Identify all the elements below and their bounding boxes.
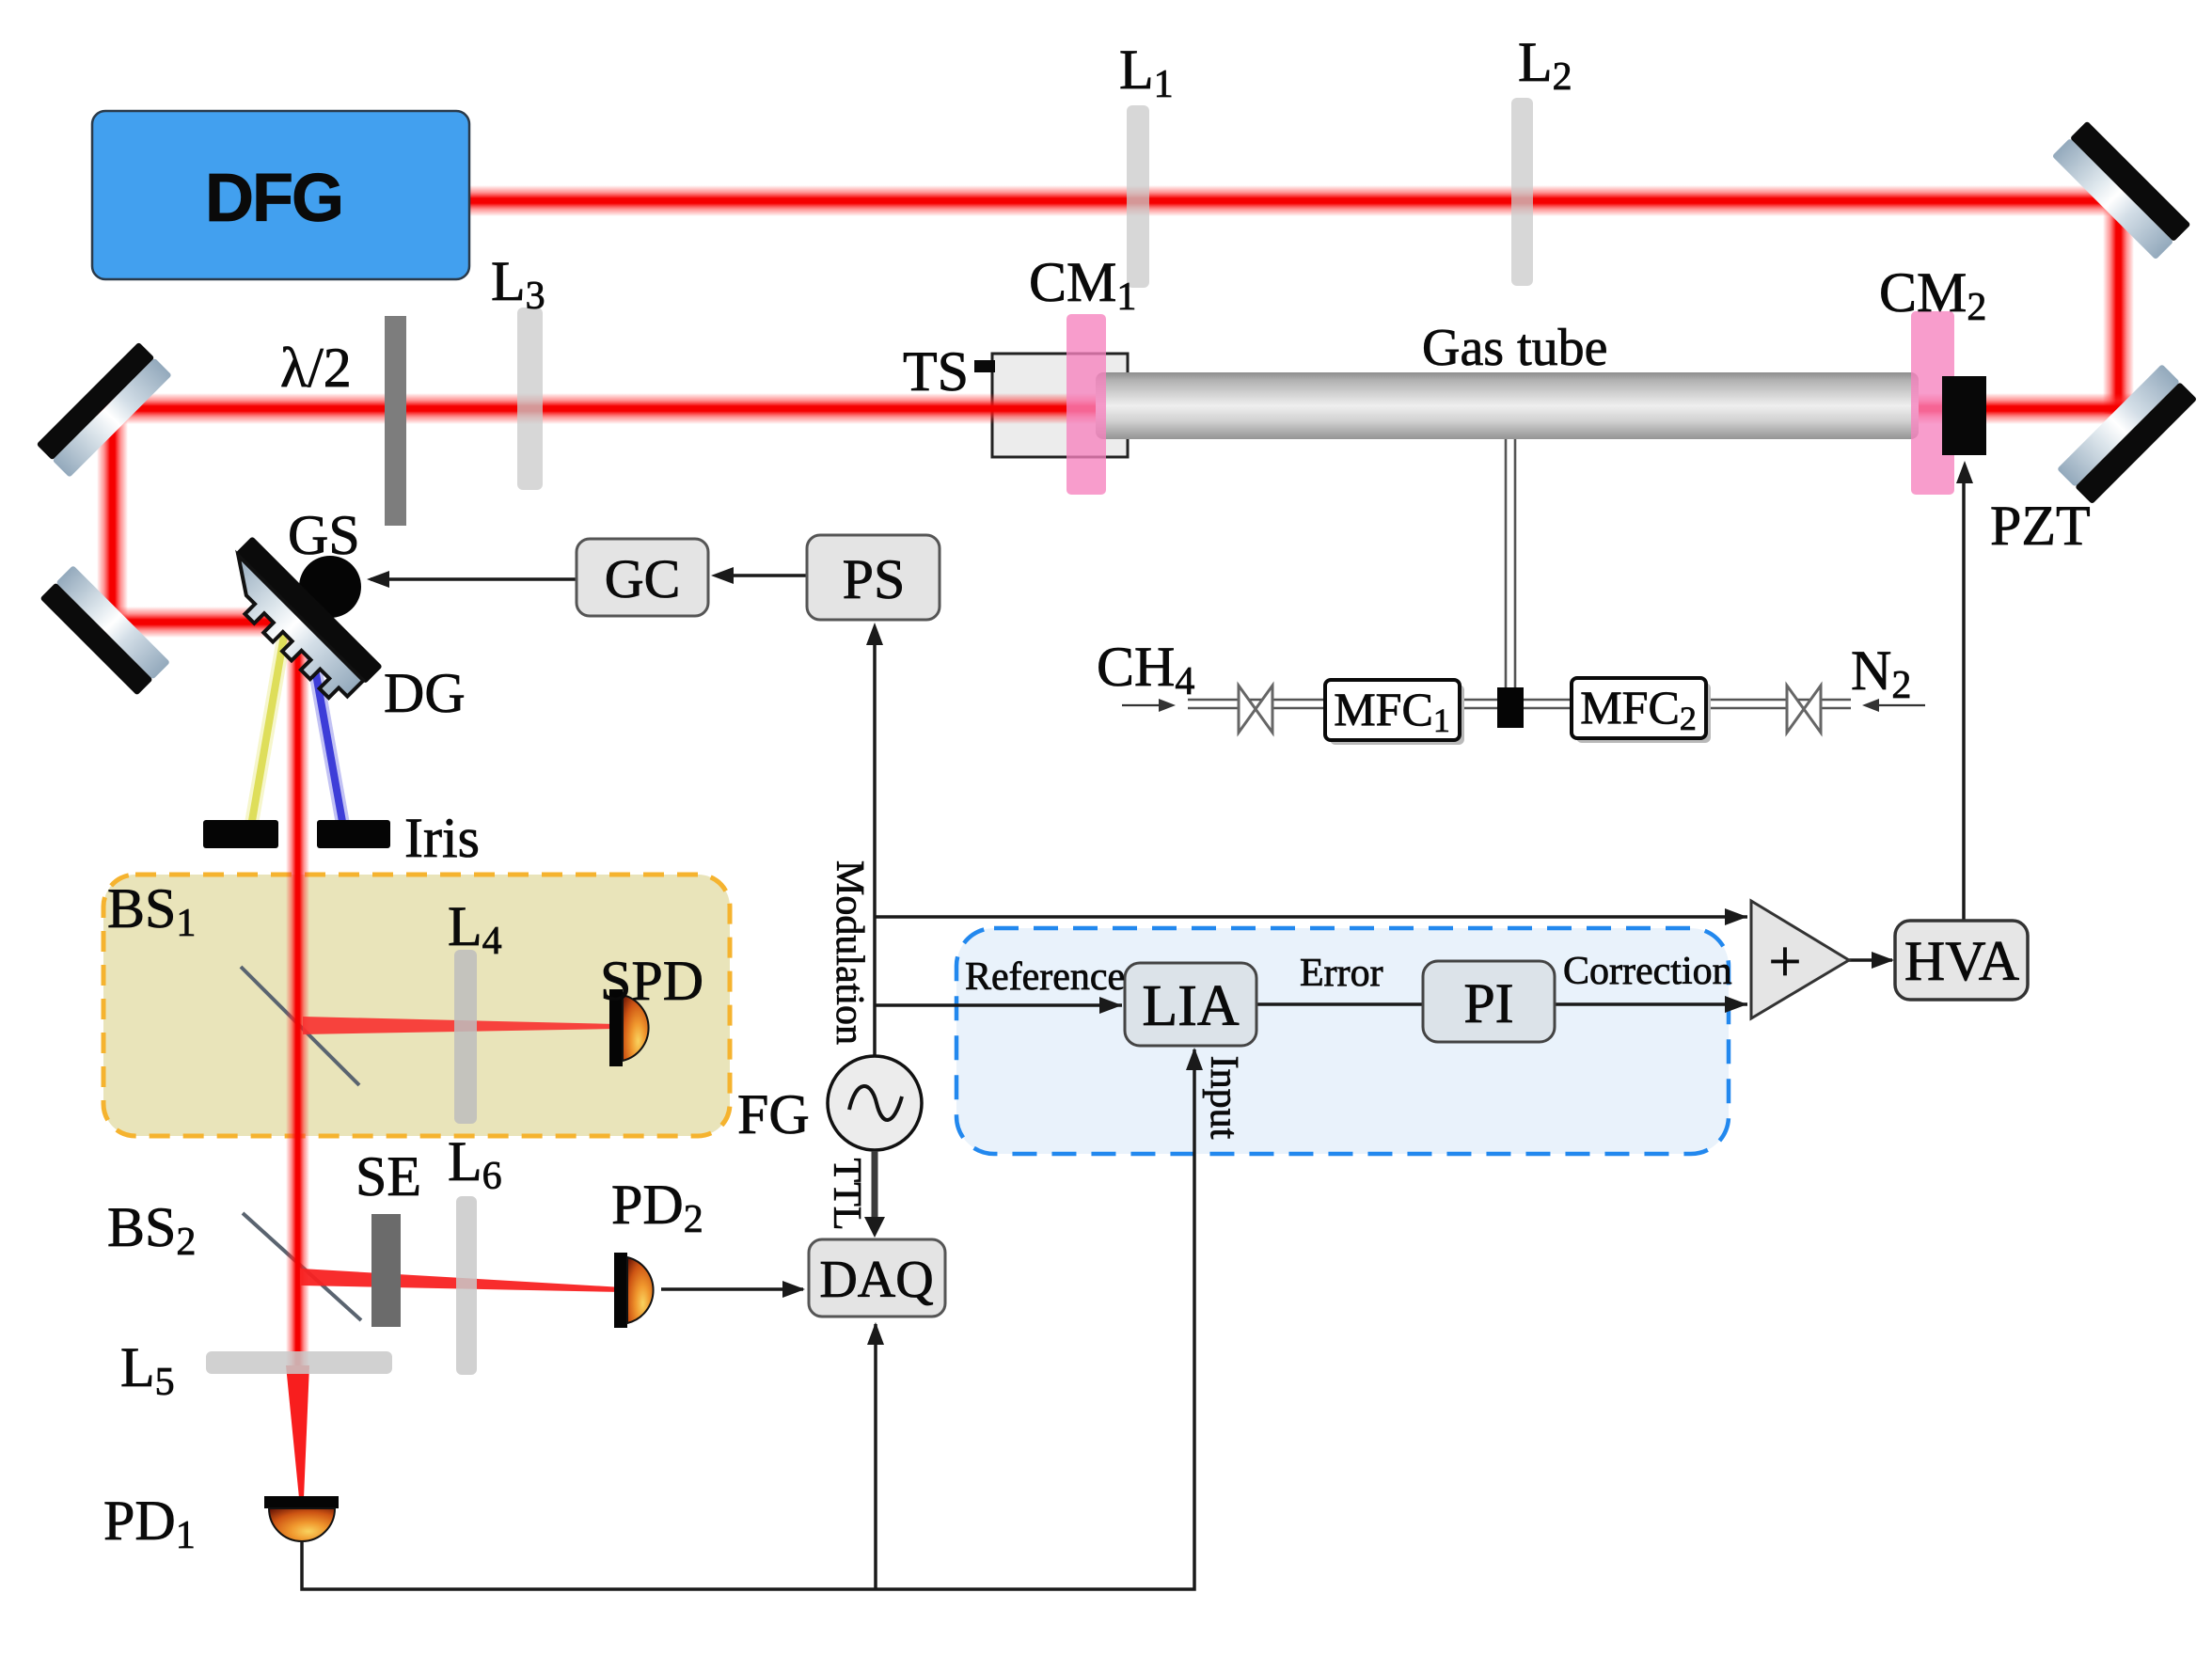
beam BS2 to PD2 <box>301 1269 623 1292</box>
arrowhead into DAQ bottom <box>867 1322 884 1345</box>
arrowhead into PZT <box>1956 461 1973 483</box>
lens L1 <box>1127 105 1149 288</box>
cavity mirror CM1 <box>1066 314 1106 495</box>
arrowhead into PS <box>866 623 883 645</box>
svg-text:Reference: Reference <box>965 955 1125 999</box>
svg-text:Error: Error <box>1300 952 1383 995</box>
svg-text:Gas tube: Gas tube <box>1422 319 1608 377</box>
PZT actuator <box>1942 376 1986 455</box>
pipe from gas tube down to junction <box>1505 439 1508 700</box>
svg-text:λ/2: λ/2 <box>280 337 352 399</box>
iris left blade <box>203 820 278 848</box>
svg-text:Correction: Correction <box>1563 950 1732 993</box>
svg-text:GS: GS <box>288 504 360 566</box>
beam lower-left mirror to grating <box>105 607 305 638</box>
svg-text:Modulation: Modulation <box>828 860 871 1045</box>
arrowhead into HVA <box>1872 952 1894 969</box>
svg-text:DAQ: DAQ <box>819 1251 933 1309</box>
arrowhead correction into summing amp <box>1725 996 1747 1013</box>
mirror M3 upper left <box>37 342 172 478</box>
svg-text:SPD: SPD <box>600 950 703 1012</box>
svg-text:PI: PI <box>1463 972 1513 1034</box>
TTL arrow FG to DAQ <box>872 1151 878 1224</box>
box HVA <box>1895 921 2028 1000</box>
wire bottom branch to DAQ <box>874 1324 877 1589</box>
wire vertical PS-FG <box>873 628 877 1057</box>
svg-text:HVA: HVA <box>1904 930 2019 992</box>
arrowhead modulation into summing amp <box>1725 908 1747 925</box>
mirror M2 lower right <box>2057 364 2197 504</box>
svg-text:PZT: PZT <box>1990 495 2091 557</box>
galvo scanner GS <box>299 556 361 618</box>
svg-text:MFC1: MFC1 <box>1334 683 1450 739</box>
beamsplitter BS2 <box>243 1213 361 1320</box>
arrowhead PD2 into DAQ <box>782 1281 805 1298</box>
beam lower-right mirror to gas tube <box>1919 393 2137 424</box>
label DFG box <box>92 111 469 279</box>
svg-text:FG: FG <box>737 1083 810 1145</box>
summing amplifier <box>1751 901 1849 1018</box>
svg-text:PS: PS <box>843 548 906 610</box>
beam BS1 to SPD <box>303 1017 616 1034</box>
svg-text:TTL: TTL <box>825 1159 868 1231</box>
arrowhead into GS <box>367 571 389 588</box>
svg-text:DG: DG <box>384 662 466 724</box>
mirror M1 top right <box>2052 120 2191 260</box>
diffraction grating DG <box>210 536 383 709</box>
box PS <box>807 535 940 620</box>
beam gas tube to left mirror <box>97 393 1098 424</box>
wire PS to GC <box>717 574 807 577</box>
lens L4 <box>454 950 477 1124</box>
wire reference branch to LIA <box>875 1003 1122 1007</box>
box DAQ <box>809 1239 945 1317</box>
detector SPD <box>609 989 649 1066</box>
MFC2 box <box>1576 683 1711 743</box>
valve V1 <box>1239 686 1272 733</box>
detector PD2 <box>614 1253 654 1328</box>
beam DFG to top-right mirror <box>469 185 2125 216</box>
svg-text:TS: TS <box>903 340 969 402</box>
blue dashed locking box <box>956 928 1729 1154</box>
svg-text:LIA: LIA <box>1142 974 1240 1038</box>
lens L2 <box>1511 98 1533 286</box>
beam left vertical <box>97 404 128 630</box>
wire PD1 ground loop <box>302 1049 1194 1589</box>
arrowhead reference into LIA <box>1099 997 1122 1014</box>
wire PI to summing amp (correction) <box>1555 1002 1747 1006</box>
detector PD1 <box>264 1496 339 1541</box>
mirror M4 lower left <box>39 565 170 696</box>
wire LIA to PI (error) <box>1256 1002 1423 1006</box>
waveplate lambda/2 <box>385 316 406 526</box>
wire GC to GS <box>371 577 577 581</box>
box GC <box>577 539 708 616</box>
function generator FG <box>828 1056 922 1150</box>
wire modulation branch to summing amp <box>875 915 1747 919</box>
yellow diffracted beam <box>248 630 285 843</box>
yellow dashed analysis box <box>103 875 730 1136</box>
beam grating down to L5 <box>286 621 309 1368</box>
cavity mirror CM2 <box>1911 311 1954 495</box>
lens L3 <box>517 308 543 490</box>
iris right blade <box>317 820 390 848</box>
solid etalon SE <box>371 1214 401 1327</box>
svg-text:MFC2: MFC2 <box>1580 681 1697 737</box>
valve V2 <box>1787 686 1821 733</box>
wire PD2 to DAQ <box>661 1287 803 1291</box>
arrow CH4 inlet <box>1122 704 1166 706</box>
beam right vertical <box>2103 199 2134 414</box>
arrowhead input into LIA <box>1186 1048 1203 1070</box>
beamsplitter BS1 <box>241 967 359 1085</box>
TS translation stage <box>992 354 1128 457</box>
box LIA <box>1125 963 1256 1046</box>
box PI <box>1423 961 1555 1042</box>
blue diffracted beam <box>308 632 346 843</box>
arrowhead into GC <box>711 567 734 584</box>
gas tube <box>1096 372 1919 439</box>
svg-text:GC: GC <box>605 548 681 609</box>
junction square <box>1497 687 1524 728</box>
lens L6 <box>456 1196 477 1375</box>
wire summing amp to HVA <box>1849 958 1892 962</box>
svg-text:SE: SE <box>355 1145 421 1207</box>
svg-text:Input: Input <box>1202 1056 1245 1140</box>
svg-text:+: + <box>1769 930 1802 994</box>
MFC1 box <box>1330 685 1464 745</box>
gas pipe CH4 to N2 <box>1188 439 1851 708</box>
arrow N2 inlet <box>1872 704 1925 706</box>
lens L5 <box>206 1351 392 1374</box>
svg-text:DFG: DFG <box>205 161 342 236</box>
beam converging L5 to PD1 <box>286 1365 309 1498</box>
wire HVA to PZT <box>1962 480 1966 921</box>
svg-text:Iris: Iris <box>404 807 480 869</box>
